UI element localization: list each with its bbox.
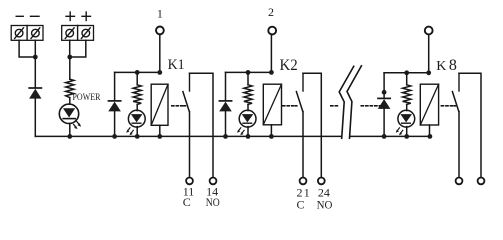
minus polarity labels <box>16 15 39 17</box>
svg-text:2: 2 <box>268 5 274 19</box>
diode D8 <box>378 98 391 109</box>
node bus-coil K2 <box>269 134 274 139</box>
switch contact K1 fixed stub <box>189 73 191 91</box>
break mark right (omitted channels) <box>347 66 361 139</box>
wire node to diode D0 <box>34 57 36 88</box>
svg-text:POWER: POWER <box>73 92 101 102</box>
node bus-D1 <box>112 134 117 139</box>
node bus-LED1 <box>135 134 140 139</box>
node plus junction <box>67 55 72 60</box>
wire diode D1 to bus <box>114 111 116 136</box>
relay coil K1 <box>151 84 168 125</box>
wire coil K1 to bus <box>159 125 161 136</box>
LED DS0 (power indicator) <box>59 104 81 129</box>
wire channel 2 top rail <box>226 71 272 73</box>
switch contact K8 movable arm <box>452 92 458 112</box>
wire diode D0 to bus <box>34 99 36 137</box>
node rail-LED1 <box>135 70 140 75</box>
wire LED DS0 to bus <box>69 123 71 136</box>
node bus-LED0 <box>67 134 72 139</box>
wire minus block to node <box>19 40 35 57</box>
terminal 21 <box>300 178 307 185</box>
node rail-coil K8 <box>426 70 431 75</box>
wire rail to diode D1 <box>114 72 116 100</box>
node bus-LED2 <box>246 134 251 139</box>
wire diode D8 to bus <box>383 109 385 136</box>
plus polarity labels <box>66 12 91 20</box>
wire coil K2 to bus <box>270 125 272 137</box>
svg-text:K1: K1 <box>168 57 185 73</box>
wire NO bracket K8 <box>459 73 481 177</box>
switch contact K2 fixed stub <box>302 73 304 91</box>
LED DS8 <box>396 110 415 135</box>
node bus-coil K1 <box>157 134 162 139</box>
bus wire (common) <box>35 135 341 137</box>
wire channel 8 top rail <box>384 72 429 74</box>
wire resistor R0 to LED <box>69 98 71 105</box>
node bus-coil K8 (bus end) <box>428 134 433 139</box>
terminal 81 (C) <box>456 178 463 185</box>
wire minus right cell down <box>34 40 36 57</box>
node bus-D8 <box>382 134 387 139</box>
plus terminal block TB2 <box>62 26 94 41</box>
wire resistor R1 to LED DS1 <box>136 104 138 110</box>
wire resistor R2 to LED DS2 <box>247 104 249 110</box>
wire terminal 2 to coil K2 top <box>270 35 272 73</box>
mechanical link K8 (dotted) <box>441 105 455 107</box>
wire common K1 to terminal 11 <box>189 112 191 178</box>
relay coil K2 <box>263 84 281 125</box>
wire common K8 to terminal <box>458 112 460 178</box>
wire coil K8 to bus <box>429 125 431 136</box>
terminal 14 <box>210 178 217 185</box>
wire rail to diode D8 <box>383 73 385 98</box>
terminal 1 <box>156 27 164 35</box>
svg-text:NO: NO <box>317 197 333 211</box>
node rail-LED2 <box>246 70 251 75</box>
wire LED DS8 to bus <box>406 127 408 137</box>
LED DS2 <box>237 110 256 135</box>
wire channel 1 top rail <box>115 71 160 73</box>
switch contact K2 movable arm <box>296 92 302 112</box>
terminal 8 <box>425 27 433 35</box>
svg-text:C: C <box>297 197 305 211</box>
wire terminal 1 to coil K1 top <box>159 34 161 72</box>
wire plus block to node <box>70 40 86 57</box>
bus wire right of break <box>351 135 431 137</box>
node bus-LED8 <box>404 134 409 139</box>
svg-text:NO: NO <box>206 195 220 209</box>
wire rail to diode D2 <box>225 72 227 100</box>
wire resistor R8 to LED DS8 <box>406 104 408 110</box>
resistor R2 <box>244 85 252 105</box>
node bus-D2 <box>223 134 228 139</box>
LED DS1 <box>126 110 145 135</box>
wire LED DS2 to bus <box>247 127 249 137</box>
relay coil K8 <box>420 84 438 125</box>
wire node to resistor R0 <box>69 57 71 79</box>
svg-text:1: 1 <box>157 7 163 21</box>
node rail-coil K2 <box>269 70 274 75</box>
node rail-coil K1 <box>157 70 162 75</box>
node on diode D8 wire <box>382 90 387 95</box>
wire plus left cell down <box>69 40 71 57</box>
node rail-LED8 <box>404 70 409 75</box>
mechanical link K1 (dotted) <box>172 105 186 107</box>
dotted continuation right of break <box>361 105 381 107</box>
switch contact K8 fixed stub <box>458 73 460 91</box>
terminal 2 <box>268 27 276 35</box>
wire NO bracket K1 <box>190 73 214 177</box>
svg-text:C: C <box>183 195 191 209</box>
wire NO bracket K2 <box>303 73 321 177</box>
wire terminal 8 to coil K8 top <box>428 35 430 73</box>
svg-text:K2: K2 <box>280 57 298 74</box>
wire rail to resistor R1 <box>136 72 138 84</box>
minus terminal block TB1 <box>11 26 43 41</box>
wire rail to resistor R2 <box>247 72 249 84</box>
terminal 11 <box>186 178 193 185</box>
mechanical link K2 (dotted) <box>283 105 297 107</box>
wire diode D2 to bus <box>225 111 227 136</box>
node minus junction <box>33 55 38 60</box>
svg-text:K8: K8 <box>436 57 457 74</box>
switch contact K1 movable arm <box>183 92 189 112</box>
wire LED DS1 to bus <box>136 127 138 137</box>
wire common K2 to terminal 21 <box>302 112 304 178</box>
resistor R1 <box>133 85 141 105</box>
resistor R0 (power) <box>66 79 74 97</box>
terminal 24 <box>318 178 325 185</box>
break mark left (omitted channels) <box>339 66 354 138</box>
diode D1 <box>108 101 121 112</box>
diode D0 (power) <box>29 88 41 99</box>
diode D2 <box>219 101 232 112</box>
resistor R8 <box>403 85 411 105</box>
wire rail to resistor R8 <box>406 73 408 85</box>
terminal 84 (NO) <box>478 178 485 185</box>
dotted continuation left of break <box>331 105 338 107</box>
